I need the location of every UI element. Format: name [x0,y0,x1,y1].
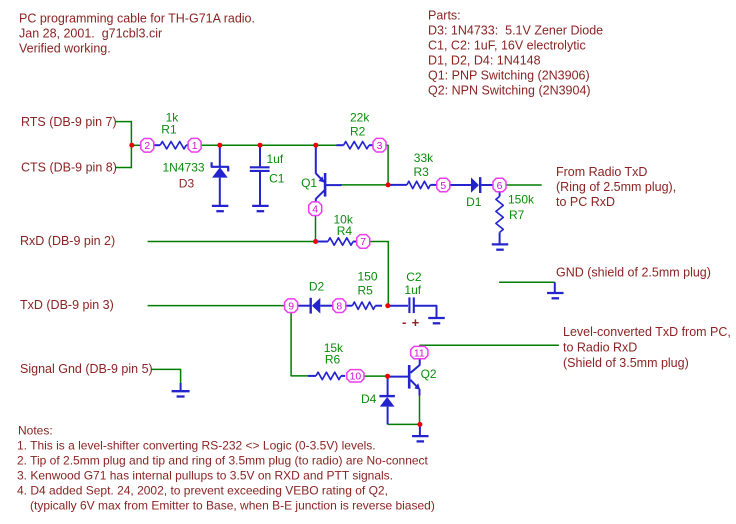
svg-text:5: 5 [440,181,446,192]
svg-text:R3: R3 [414,165,430,179]
svg-text:7: 7 [360,237,366,248]
svg-text:to Radio RxD: to Radio RxD [563,341,637,355]
svg-text:(Shield of 3.5mm plug): (Shield of 3.5mm plug) [563,356,689,370]
svg-text:2: 2 [144,141,150,152]
svg-text:Verified working.: Verified working. [19,42,111,56]
svg-text:1uf: 1uf [267,152,284,166]
svg-text:(Ring of 2.5mm plug),: (Ring of 2.5mm plug), [556,180,676,194]
svg-text:Parts:: Parts: [428,9,461,23]
svg-text:PC programming cable for TH-G7: PC programming cable for TH-G71A radio. [19,12,255,26]
svg-text:R1: R1 [161,122,177,136]
svg-text:4. D4 added Sept. 24, 2002, to: 4. D4 added Sept. 24, 2002, to prevent e… [17,483,388,497]
svg-text:RxD (DB-9 pin 2): RxD (DB-9 pin 2) [20,234,115,248]
svg-text:22k: 22k [350,110,370,124]
svg-text:Notes:: Notes: [18,423,53,437]
svg-text:1N4733: 1N4733 [163,160,205,174]
svg-text:D1, D2, D4: 1N4148: D1, D2, D4: 1N4148 [428,54,541,68]
svg-text:3. Kenwood G71 has internal pu: 3. Kenwood G71 has internal pullups to 3… [17,468,393,482]
svg-text:R7: R7 [509,208,525,222]
svg-text:Signal Gnd (DB-9 pin 5): Signal Gnd (DB-9 pin 5) [20,362,153,376]
svg-text:1. This is a level-shifter con: 1. This is a level-shifter converting RS… [17,438,376,452]
svg-text:8: 8 [336,302,342,313]
svg-text:D2: D2 [309,279,325,293]
svg-text:Q1: PNP Switching (2N3906): Q1: PNP Switching (2N3906) [428,69,590,83]
svg-text:150: 150 [358,270,378,284]
svg-text:TxD (DB-9 pin 3): TxD (DB-9 pin 3) [20,298,114,312]
svg-text:GND (shield of 2.5mm plug): GND (shield of 2.5mm plug) [556,266,711,280]
svg-text:Level-converted TxD from PC,: Level-converted TxD from PC, [563,325,731,339]
svg-text:R2: R2 [350,125,366,139]
svg-text:-: - [402,315,406,330]
svg-text:4: 4 [312,205,318,216]
svg-text:(typically 6V max from Emitter: (typically 6V max from Emitter to Base, … [30,498,435,512]
svg-text:CTS (DB-9 pin 8): CTS (DB-9 pin 8) [21,161,117,175]
svg-text:1: 1 [192,141,198,152]
svg-text:9: 9 [288,302,294,313]
svg-text:Q1: Q1 [301,176,317,190]
svg-text:D1: D1 [466,195,482,209]
svg-text:R6: R6 [325,352,341,366]
svg-text:RTS (DB-9 pin 7): RTS (DB-9 pin 7) [21,115,117,129]
svg-text:R5: R5 [358,283,374,297]
svg-text:C1, C2: 1uF, 16V electrolytic: C1, C2: 1uF, 16V electrolytic [428,39,586,53]
svg-text:150k: 150k [508,193,535,207]
svg-text:11: 11 [414,348,425,359]
svg-text:C1: C1 [269,172,285,186]
svg-text:1uf: 1uf [404,283,421,297]
svg-text:D4: D4 [361,392,377,406]
svg-text:From Radio TxD: From Radio TxD [556,165,647,179]
svg-text:Q2: NPN Switching (2N3904): Q2: NPN Switching (2N3904) [428,84,591,98]
svg-text:to PC RxD: to PC RxD [556,195,615,209]
svg-text:R4: R4 [337,224,353,238]
svg-text:10: 10 [350,372,362,383]
svg-text:Q2: Q2 [421,367,437,381]
svg-text:33k: 33k [414,151,434,165]
svg-text:Jan 28, 2001. g71cbl3.cir: Jan 28, 2001. g71cbl3.cir [19,27,162,41]
svg-text:2. Tip of 2.5mm plug and tip a: 2. Tip of 2.5mm plug and tip and ring of… [17,453,429,467]
svg-text:D3: 1N4733: 5.1V Zener Diode: D3: 1N4733: 5.1V Zener Diode [428,24,603,38]
svg-text:+: + [412,315,420,330]
svg-text:3: 3 [377,141,383,152]
svg-text:D3: D3 [179,177,195,191]
svg-text:6: 6 [497,181,503,192]
